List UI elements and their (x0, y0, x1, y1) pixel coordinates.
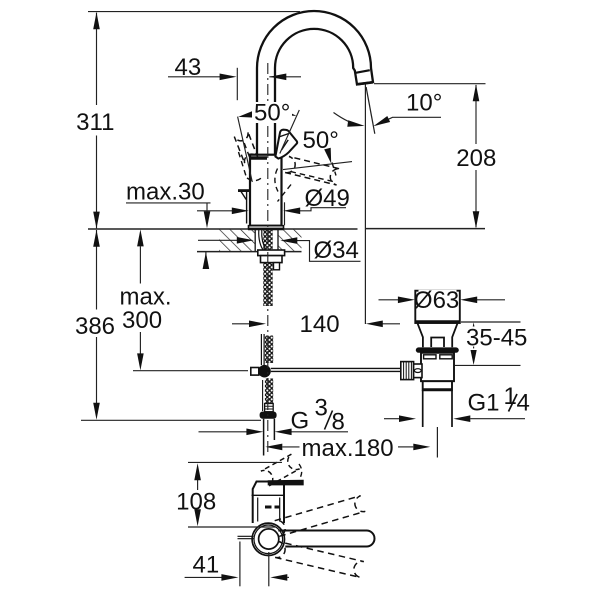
dimension 108 plan view (188, 461, 282, 463)
plan view spout dashed (261, 454, 300, 486)
dimension 311 (96, 13, 98, 229)
supply pipe G3/8 (264, 419, 275, 456)
lever handle dashed right lowered position (285, 157, 340, 186)
deck cross-section hatching right block (278, 230, 302, 252)
pop-up rod ball joint (258, 365, 271, 378)
svg-text:108: 108 (176, 489, 216, 516)
waste lower body (423, 381, 452, 390)
hose end fitting nut (260, 412, 277, 419)
svg-text:10°: 10° (406, 90, 442, 117)
dimension 50 degrees swing left-right (238, 117, 253, 182)
faucet body (250, 155, 282, 226)
curved hose inside deck hole (259, 230, 267, 251)
dimension 43 (236, 68, 238, 100)
svg-text:35-45: 35-45 (466, 324, 527, 351)
dimension diameter 49 (284, 202, 286, 225)
svg-text:300: 300 (122, 307, 162, 334)
dimension 140 (232, 323, 250, 325)
dimension 10 degrees spout angle (366, 87, 375, 134)
svg-text:50°: 50° (254, 100, 290, 127)
svg-text:311: 311 (76, 109, 114, 136)
svg-text:Ø34: Ø34 (314, 237, 359, 264)
dimension max.180 (282, 446, 299, 448)
waste plug cap (415, 291, 460, 323)
waste seal flange (416, 347, 459, 352)
svg-text:Ø63: Ø63 (414, 287, 459, 314)
svg-text:Ø49: Ø49 (305, 185, 350, 212)
svg-text:140: 140 (300, 311, 340, 338)
plan view pop-up rod tip (238, 536, 254, 538)
braided hose lower segment (265, 379, 273, 404)
pop-up rod vertical part (261, 334, 264, 365)
hose crimp ferrule (265, 404, 274, 412)
dimension 311 extension line top (88, 11, 300, 13)
rod guide step (274, 263, 280, 270)
mounting hole edges (255, 229, 278, 252)
braided hose / threaded shank upper segment (263, 230, 272, 306)
dimension max.300 hose length (139, 246, 141, 353)
plan view lever solid (278, 531, 374, 547)
centerline faucet axis (267, 63, 269, 455)
svg-text:4: 4 (517, 390, 530, 417)
svg-text:208: 208 (456, 145, 496, 172)
braided hose middle segment (265, 336, 273, 364)
svg-text:3: 3 (315, 395, 328, 422)
dimension 50 degrees lift (283, 162, 352, 170)
waste tailpipe (423, 390, 452, 427)
pop-up pull rod knob (238, 189, 250, 192)
svg-text:G: G (291, 408, 310, 435)
plan view body column (253, 482, 284, 524)
plan view escutcheon rings (252, 523, 284, 555)
lever handle solid raised position (275, 130, 297, 159)
plan view lever dashed up position (275, 496, 366, 537)
body base plate (249, 226, 284, 229)
svg-text:50°: 50° (303, 127, 339, 154)
svg-text:43: 43 (175, 54, 202, 81)
waste body (421, 353, 454, 381)
svg-text:41: 41 (193, 552, 220, 579)
deck bottom surface line (197, 251, 302, 253)
svg-text:max.30: max.30 (126, 178, 205, 205)
dimension 41 plan view (185, 576, 222, 578)
rod adjuster knurled knob (401, 362, 414, 380)
spout outlet bold edge (357, 82, 373, 84)
svg-text:max.180: max.180 (302, 435, 394, 462)
svg-text:G1: G1 (468, 390, 500, 417)
dimension 386 (96, 230, 98, 403)
horizontal pop-up rod to waste (271, 368, 401, 371)
body top bold edge (251, 156, 267, 159)
mounting nut (261, 256, 283, 263)
dimension 208 (374, 83, 486, 85)
waste stem (431, 338, 444, 348)
deck cross-section hatching left block (219, 230, 255, 252)
lever handle dashed left swing position (234, 131, 258, 163)
dimension diameter 34 hole (198, 239, 237, 241)
plan view lever dashed down position (275, 542, 364, 578)
dimension 35-45 mounting range (461, 321, 521, 323)
deck top surface line (88, 228, 485, 230)
plan view handle edge-on dark bar (268, 480, 304, 486)
spout tube outline (257, 11, 373, 157)
waste funnel neck (418, 324, 458, 348)
svg-text:386: 386 (75, 313, 115, 340)
dimension diameter 63 waste plug (379, 299, 399, 301)
aerator cap separator (355, 70, 370, 73)
mounting washer under deck (258, 250, 285, 256)
